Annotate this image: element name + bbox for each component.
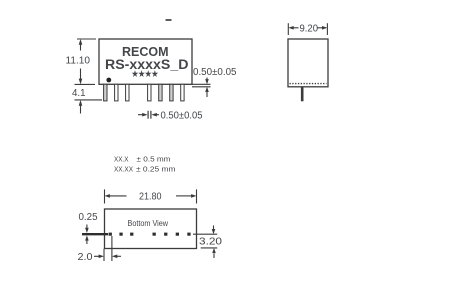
dimension 3.20 text (199, 237, 223, 248)
dimension 21.80 text (139, 192, 162, 203)
side view pin (301, 87, 304, 102)
svg-text:XX.X: XX.X (114, 155, 129, 164)
dimension 3.20 upper leader line (193, 233, 217, 235)
dimension 2.0 text (78, 252, 93, 263)
side view dotted base line (290, 83, 327, 85)
artifact dash top center (166, 19, 172, 21)
dimension 11.10 upper arrow (79, 39, 83, 51)
dimension 9.20 right extension tick (326, 23, 328, 35)
pin 1 front (104, 84, 107, 101)
pin 7 front (170, 84, 173, 101)
dimension 9.20 right arrow pointing right (318, 26, 328, 30)
dimension 21.80 left arrow pointing left (105, 194, 127, 198)
dimension 0.25 lower arrow pointing up (85, 235, 89, 244)
bottom view label (128, 219, 169, 228)
bottom view pin 5 pad (153, 233, 156, 236)
bottom view case outline (105, 209, 197, 249)
svg-text:4.1: 4.1 (72, 88, 86, 99)
bottom view pin 3 pad (130, 233, 133, 236)
dimension 0.50 right lower arrow pointing up (205, 87, 209, 97)
pin 3 front (126, 84, 129, 101)
dimension 0.50 pin thickness leader line upper (192, 83, 211, 85)
svg-text:2.0: 2.0 (78, 252, 93, 263)
dimension 2.0 case edge extension line (103, 249, 105, 261)
four stars marking (131, 70, 159, 79)
tolerance note line 2 (114, 165, 176, 174)
pin 1 dot marker (106, 78, 111, 83)
dimension 11.10 bottom extension tick (75, 83, 96, 85)
bottom view pin 2 pad (119, 233, 122, 236)
svg-text:11.10: 11.10 (66, 56, 91, 67)
dimension 0.50 right upper arrow pointing down (205, 78, 209, 85)
dimension 2.0 pin extension line (111, 236, 113, 261)
svg-text:0.50±0.05: 0.50±0.05 (161, 111, 203, 122)
svg-text:9.20: 9.20 (300, 24, 319, 35)
svg-text:± 0.5 mm: ± 0.5 mm (137, 155, 171, 164)
dimension 11.10 top extension tick (77, 38, 96, 40)
pin 2 front (115, 84, 118, 101)
dimension 21.80 right extension tick (196, 189, 198, 203)
dimension 0.50±0.05 bottom text (161, 111, 203, 122)
dimension 11.10 text (66, 56, 91, 67)
dimension 0.50 pin width bars (148, 111, 151, 119)
label RS-xxxxS_D part number (105, 57, 189, 72)
dimension 21.80 right arrow pointing right (176, 194, 197, 198)
bottom view pin 8 pad (187, 233, 190, 236)
dimension 11.10 lower arrow (79, 69, 83, 85)
front view case outline (99, 39, 192, 84)
svg-text:± 0.25 mm: ± 0.25 mm (136, 165, 176, 174)
pin 6 front (159, 84, 162, 101)
pin 8 front (181, 84, 184, 101)
dimension 9.20 left arrow pointing left (288, 26, 298, 30)
dimension 21.80 left extension tick (104, 189, 106, 203)
dimension 0.50±0.05 right text (193, 67, 237, 78)
dimension 0.50 pin width left arrow pointing right (138, 113, 148, 117)
dimension 0.25 upper arrow pointing down (85, 225, 89, 234)
svg-text:Bottom View: Bottom View (128, 219, 169, 228)
pin 5 front (148, 84, 151, 101)
svg-text:3.20: 3.20 (199, 237, 223, 248)
dimension 0.25 leader thick line (82, 233, 108, 235)
dimension 0.50 pin thickness leader line lower (192, 86, 211, 88)
bottom view pin 7 pad (176, 233, 179, 236)
dimension 9.20 text (300, 24, 319, 35)
dimension 2.0 right arrow pointing left (112, 255, 121, 259)
bottom view pin 1 pad (109, 233, 112, 236)
side view case outline (288, 39, 328, 87)
bottom view pin 6 pad (164, 233, 167, 236)
dimension 9.20 left extension tick (287, 23, 289, 35)
svg-text:0.50±0.05: 0.50±0.05 (193, 67, 237, 78)
dimension 4.1 text (72, 88, 86, 99)
dimension 3.20 lower leader line (201, 247, 218, 249)
dimension 3.20 lower arrow pointing up (212, 248, 216, 258)
svg-text:21.80: 21.80 (139, 192, 162, 203)
dimension 0.50 pin width right arrow pointing left (151, 113, 159, 117)
tolerance note line 1 (114, 155, 171, 164)
dimension 0.25 text (79, 212, 98, 223)
label RECOM logo (122, 45, 169, 59)
dimension 2.0 left arrow pointing right (94, 255, 104, 259)
svg-text:XX.XX: XX.XX (114, 165, 133, 174)
dimension 4.1 lower arrow pointing up (79, 100, 83, 114)
dimension 4.1 bottom extension tick (75, 99, 103, 101)
dimension 3.20 upper arrow pointing down (212, 226, 216, 235)
svg-text:0.25: 0.25 (79, 212, 98, 223)
svg-text:★★★★: ★★★★ (131, 70, 159, 79)
